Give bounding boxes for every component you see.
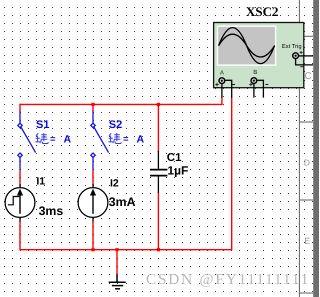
wire: ground red stem bbox=[116, 250, 118, 275]
svg-text:C: C bbox=[305, 71, 312, 82]
junction bottom rail x93 bbox=[91, 248, 94, 251]
wire: S2 branch red top bbox=[92, 104, 94, 112]
svg-text:=: = bbox=[123, 134, 129, 145]
junction top rail x158 bbox=[157, 103, 160, 106]
oscilloscope XSC2 bbox=[214, 4, 313, 88]
svg-text:A: A bbox=[220, 70, 224, 77]
zone tick D/E bbox=[299, 199, 313, 201]
scrollbar bbox=[313, 0, 319, 297]
sheet border line bbox=[298, 0, 300, 297]
svg-text:3mA: 3mA bbox=[109, 195, 136, 209]
current source I2 bbox=[78, 184, 108, 222]
wire: S2 branch red mid bbox=[92, 170, 94, 185]
svg-text:I2: I2 bbox=[110, 178, 119, 190]
zone tick B/C bbox=[299, 35, 313, 37]
Ext Trig wires bbox=[298, 55, 313, 57]
wire: C1 branch red top bbox=[157, 104, 159, 152]
svg-text:D: D bbox=[304, 158, 310, 168]
svg-text:1µF: 1µF bbox=[167, 163, 188, 177]
svg-text:XSC2: XSC2 bbox=[246, 4, 279, 19]
wire: I2 bottom red bbox=[92, 221, 94, 250]
svg-text:3ms: 3ms bbox=[39, 204, 64, 218]
terminal B plus bbox=[249, 83, 252, 86]
wire: bottom rail bbox=[20, 249, 232, 251]
sine trace 1 bbox=[219, 28, 275, 64]
wire: left branch red top bbox=[19, 104, 21, 112]
ground bbox=[109, 275, 126, 289]
svg-text:S1: S1 bbox=[36, 119, 49, 131]
terminal B bbox=[251, 78, 257, 84]
svg-text:B: B bbox=[253, 69, 257, 76]
scope B- black stub bbox=[257, 80, 264, 97]
zone tick bottom bbox=[299, 292, 313, 294]
zone tick C/D bbox=[299, 121, 313, 123]
terminal A minus bbox=[232, 84, 235, 86]
terminal B minus bbox=[265, 84, 268, 86]
scope screen frame bbox=[217, 26, 276, 66]
wire: left branch red mid bbox=[19, 170, 21, 185]
wire: top rail bbox=[20, 103, 222, 105]
label key = A (S2) bbox=[108, 133, 121, 144]
junction bottom rail x158 bbox=[157, 248, 160, 251]
wire: scope A- red down bbox=[231, 97, 233, 250]
label key = A (S1) bbox=[35, 133, 48, 144]
capacitor C1 bbox=[150, 151, 167, 193]
switch S1 bbox=[18, 111, 36, 170]
svg-text:A: A bbox=[137, 133, 145, 145]
sine trace 2 bbox=[219, 34, 275, 57]
terminal A plus bbox=[215, 83, 218, 86]
wire: C1 branch red bottom bbox=[157, 192, 159, 250]
svg-text:E: E bbox=[304, 236, 310, 246]
terminal A bbox=[219, 78, 225, 84]
svg-text:Ext Trig: Ext Trig bbox=[282, 43, 302, 50]
switch S2 bbox=[91, 111, 109, 170]
pulse glyph bbox=[8, 197, 20, 205]
scope screen bbox=[218, 27, 275, 65]
Ext Trig terminal bbox=[293, 53, 299, 59]
junction bottom rail ground bbox=[115, 248, 118, 251]
wire: scope A+ red bbox=[221, 97, 223, 105]
scope A+ black stub bbox=[221, 84, 223, 98]
current source I1 bbox=[5, 184, 35, 222]
svg-text:S2: S2 bbox=[109, 119, 122, 131]
scope body bbox=[214, 23, 304, 88]
svg-text:CSDN @FY11111111: CSDN @FY11111111 bbox=[146, 271, 310, 288]
svg-text:I1: I1 bbox=[36, 176, 45, 188]
scope B+ black stub bbox=[253, 84, 255, 98]
junction top rail x93 bbox=[91, 103, 94, 106]
svg-text:A: A bbox=[64, 133, 72, 145]
scope A- black stub bbox=[225, 80, 232, 97]
svg-text:C1: C1 bbox=[167, 152, 182, 164]
svg-text:=: = bbox=[50, 134, 56, 145]
wire: left branch red bottom bbox=[19, 221, 21, 250]
